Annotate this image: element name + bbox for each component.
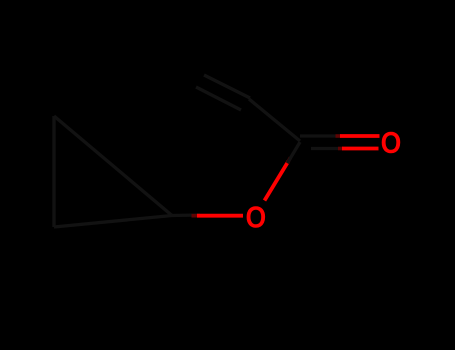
bond ring apex to ester O: carbon half (gray) — [172, 213, 200, 217]
C=O double bond: main line fade — [336, 134, 342, 138]
bond carbonyl C to vinyl CH (gray) — [249, 99, 300, 141]
bond ester O to carbonyl C: oxygen half (red) — [265, 161, 289, 201]
bond ring apex to ester O: oxygen half (red) — [197, 214, 243, 218]
bond ring apex to ester O: fade — [192, 214, 199, 218]
vinyl C=C double bond: upper line — [204, 75, 250, 98]
C=O double bond: second line oxygen half (red) — [342, 147, 379, 151]
svg-text:O: O — [246, 201, 267, 235]
C=O double bond: main line oxygen half (red) — [340, 134, 380, 138]
bond ester O to carbonyl C: fade — [287, 158, 290, 164]
svg-text:O: O — [381, 126, 402, 160]
cyclopropane ring: bottom edge — [54, 216, 172, 228]
C=O double bond: second line fade — [338, 147, 343, 151]
cyclopropane ring: left edge — [52, 116, 55, 227]
C=O double bond: second line carbon half (gray) — [311, 147, 343, 150]
C=O double bond: main line carbon half (gray) — [300, 134, 341, 137]
cyclopropane ring: top edge — [54, 116, 172, 216]
vinyl C=C double bond: lower line — [196, 87, 241, 110]
bond ester O to carbonyl C: carbon half (gray) — [288, 142, 301, 163]
